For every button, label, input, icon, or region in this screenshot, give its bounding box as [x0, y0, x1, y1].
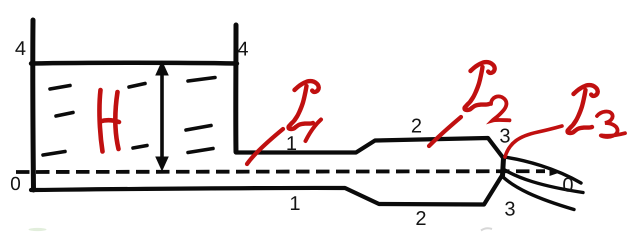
water dash [56, 113, 73, 117]
label 0 right [563, 178, 573, 192]
pipe top wall [236, 138, 504, 159]
pipe bottom wall [31, 176, 502, 205]
label 2 top [412, 119, 421, 133]
water dash [43, 152, 65, 156]
label 1 top [287, 136, 296, 150]
H measurement arrow [155, 61, 169, 172]
tank left wall [30, 20, 36, 190]
faint gray arc [481, 228, 492, 230]
label 0 left [11, 177, 20, 190]
jet stream middle [503, 169, 583, 193]
water dash [50, 86, 70, 90]
tank right wall [233, 25, 238, 152]
nozzle bar [503, 158, 504, 176]
datum arrowhead [550, 168, 563, 177]
jet stream upper [504, 157, 581, 183]
red S2 label [429, 62, 510, 146]
label 4 left [15, 41, 25, 55]
red H label [99, 90, 119, 152]
water dash [129, 84, 145, 88]
datum dashed line [16, 169, 545, 174]
water dash [188, 78, 215, 82]
label 2 bottom [416, 211, 425, 225]
red S3 label [505, 85, 625, 157]
water dash [133, 146, 147, 149]
label 4 right [238, 42, 248, 56]
label 1 bottom [291, 196, 300, 210]
label 3 top [500, 129, 509, 143]
red S1 label [247, 81, 321, 164]
faint green smudge [29, 228, 47, 231]
water dash [188, 149, 213, 153]
label 3 bottom [505, 202, 514, 216]
water surface line [31, 61, 237, 66]
water dash [186, 126, 211, 131]
jet stream lower [503, 177, 574, 210]
